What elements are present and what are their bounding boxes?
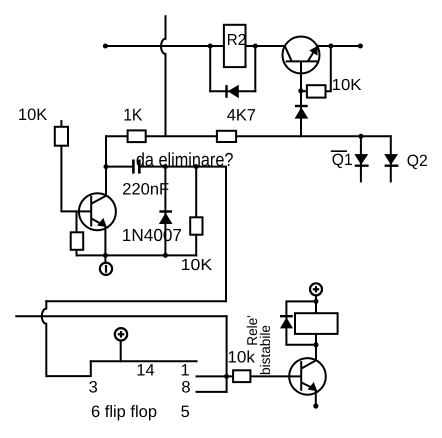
wire base resistor upper lead <box>76 211 78 232</box>
wire vertical stub with hop over top rail <box>161 16 166 135</box>
svg-text:4K7: 4K7 <box>227 107 256 125</box>
wire 10K top-left stub <box>60 121 62 127</box>
wire relay plus stem <box>315 296 317 314</box>
node T1 emitter rail <box>103 253 108 258</box>
wire Q-top base to node <box>300 61 302 90</box>
resistor 10K mid <box>190 217 202 234</box>
relay coil box <box>295 313 338 334</box>
svg-text:10K: 10K <box>332 77 362 94</box>
transistor T1 internals <box>79 196 106 256</box>
capacitor 220nF plates <box>133 160 139 174</box>
node diode top <box>163 164 168 169</box>
resistor base-emitter T1 <box>71 232 84 250</box>
node relay top <box>314 299 319 304</box>
node R2 right <box>253 44 258 49</box>
wire Q2 corner down <box>390 136 392 181</box>
wire cap left lead <box>106 166 132 168</box>
wire node to 10K right resistor <box>301 90 307 92</box>
wire 1K left lead down to cap node <box>105 136 107 166</box>
svg-text:R2: R2 <box>227 32 246 49</box>
transistor T2 emitter arrow <box>310 47 317 55</box>
node T2 base <box>298 88 303 93</box>
wire Q1 branch down <box>360 136 362 181</box>
svg-text:1N4007: 1N4007 <box>122 225 182 245</box>
plus supply symbol above relay <box>310 283 322 295</box>
diode D-R2 (parallel to R2, pointing left) <box>227 85 239 99</box>
node 10K mid top <box>194 164 199 169</box>
wire flipflop top pin line <box>91 360 197 362</box>
svg-text:Q1: Q1 <box>332 151 353 169</box>
resistor 4K7 <box>217 131 236 142</box>
wire 10K right resistor to rail <box>326 46 331 91</box>
svg-text:bistabile: bistabile <box>257 325 273 375</box>
wire R2 left terminal down <box>209 46 211 91</box>
wire base resistor lower lead <box>76 250 78 256</box>
diode 1N4007 (pointing up) <box>159 212 173 225</box>
wire trigger line down to 10k node <box>226 316 228 392</box>
node rail end <box>358 44 363 49</box>
svg-text:220nF: 220nF <box>122 180 169 198</box>
svg-text:6 flip flop: 6 flip flop <box>91 403 157 421</box>
svg-text:5: 5 <box>181 403 190 421</box>
svg-text:10K: 10K <box>181 257 213 274</box>
node diode bottom rail <box>163 253 168 258</box>
node Q1 <box>358 134 363 139</box>
wire 10K mid top lead <box>195 167 197 218</box>
svg-text:10K: 10K <box>18 106 47 124</box>
wire mid rail 1K-4K7-Q2 <box>106 135 391 137</box>
wire trigger line horizontal <box>16 315 226 317</box>
svg-text:Q2: Q2 <box>407 152 428 170</box>
wire cap right to eliminare node path down-left <box>46 167 226 302</box>
svg-text:14: 14 <box>136 361 154 379</box>
wire R2 right terminal down <box>254 46 256 91</box>
overline of Q1 <box>331 150 347 152</box>
svg-text:da eliminare?: da eliminare? <box>136 150 234 171</box>
wire left vertical with hop <box>42 301 91 376</box>
transistor T3 internals <box>289 360 316 406</box>
diode D-emitter (x=301, pointing up) <box>295 106 309 119</box>
resistor 10K top-right <box>307 85 326 97</box>
wire pin 1 line to 10k bottom <box>197 375 234 377</box>
wire top supply rail <box>105 45 360 47</box>
svg-text:8: 8 <box>181 379 190 397</box>
node relay bottom <box>314 342 319 347</box>
resistor R2 <box>224 25 246 67</box>
wire relay flyback loop <box>286 301 316 344</box>
wire diode D-R2 horizontal <box>210 90 255 92</box>
diode Q1 (pointing down) <box>354 154 368 166</box>
transistor T2 internals <box>285 46 318 73</box>
diode Q2 (pointing down) <box>384 154 398 166</box>
transistor T3 circle (bottom right) <box>289 358 326 395</box>
resistor 10k bottom <box>233 370 250 382</box>
wire bottom rail left section <box>77 254 197 256</box>
svg-text:1K: 1K <box>123 106 143 125</box>
node 10k bottom left <box>224 374 229 379</box>
wire plus symbol stem <box>120 341 122 362</box>
svg-text:10k: 10k <box>227 348 255 366</box>
transistor T3 emitter arrow <box>309 383 317 391</box>
diode relay flyback (pointing up) <box>280 316 293 328</box>
node T3 emitter end <box>313 403 318 408</box>
node 10K right top <box>328 44 333 49</box>
wire T1 base from 10K top-left <box>61 146 91 212</box>
transistor T1 emitter arrow <box>98 219 106 227</box>
node cap left <box>104 164 109 169</box>
wire pin connector stem <box>104 255 106 263</box>
wire relay bottom to T3 collector <box>315 334 317 360</box>
wire node down through diode to mid rail <box>300 91 302 137</box>
connector pin symbol below T1 emitter <box>100 263 112 275</box>
transistor T1 circle <box>79 193 116 230</box>
resistor 1K <box>128 130 146 142</box>
plus supply symbol above flip flop <box>115 328 127 340</box>
wire 1N4007 branch <box>164 167 166 256</box>
transistor T2 circle (top right) <box>283 37 320 74</box>
svg-text:3: 3 <box>89 379 98 397</box>
node rail start <box>103 44 108 49</box>
svg-text:1: 1 <box>181 361 190 379</box>
wire 10K mid bottom lead <box>195 235 197 256</box>
wire 10k bottom to T3 base <box>250 375 289 377</box>
wire cap node to collector T1 <box>105 167 107 196</box>
resistor 10K top-left <box>55 127 68 146</box>
node R2 left <box>208 44 213 49</box>
wire pin 8 line <box>197 391 227 393</box>
